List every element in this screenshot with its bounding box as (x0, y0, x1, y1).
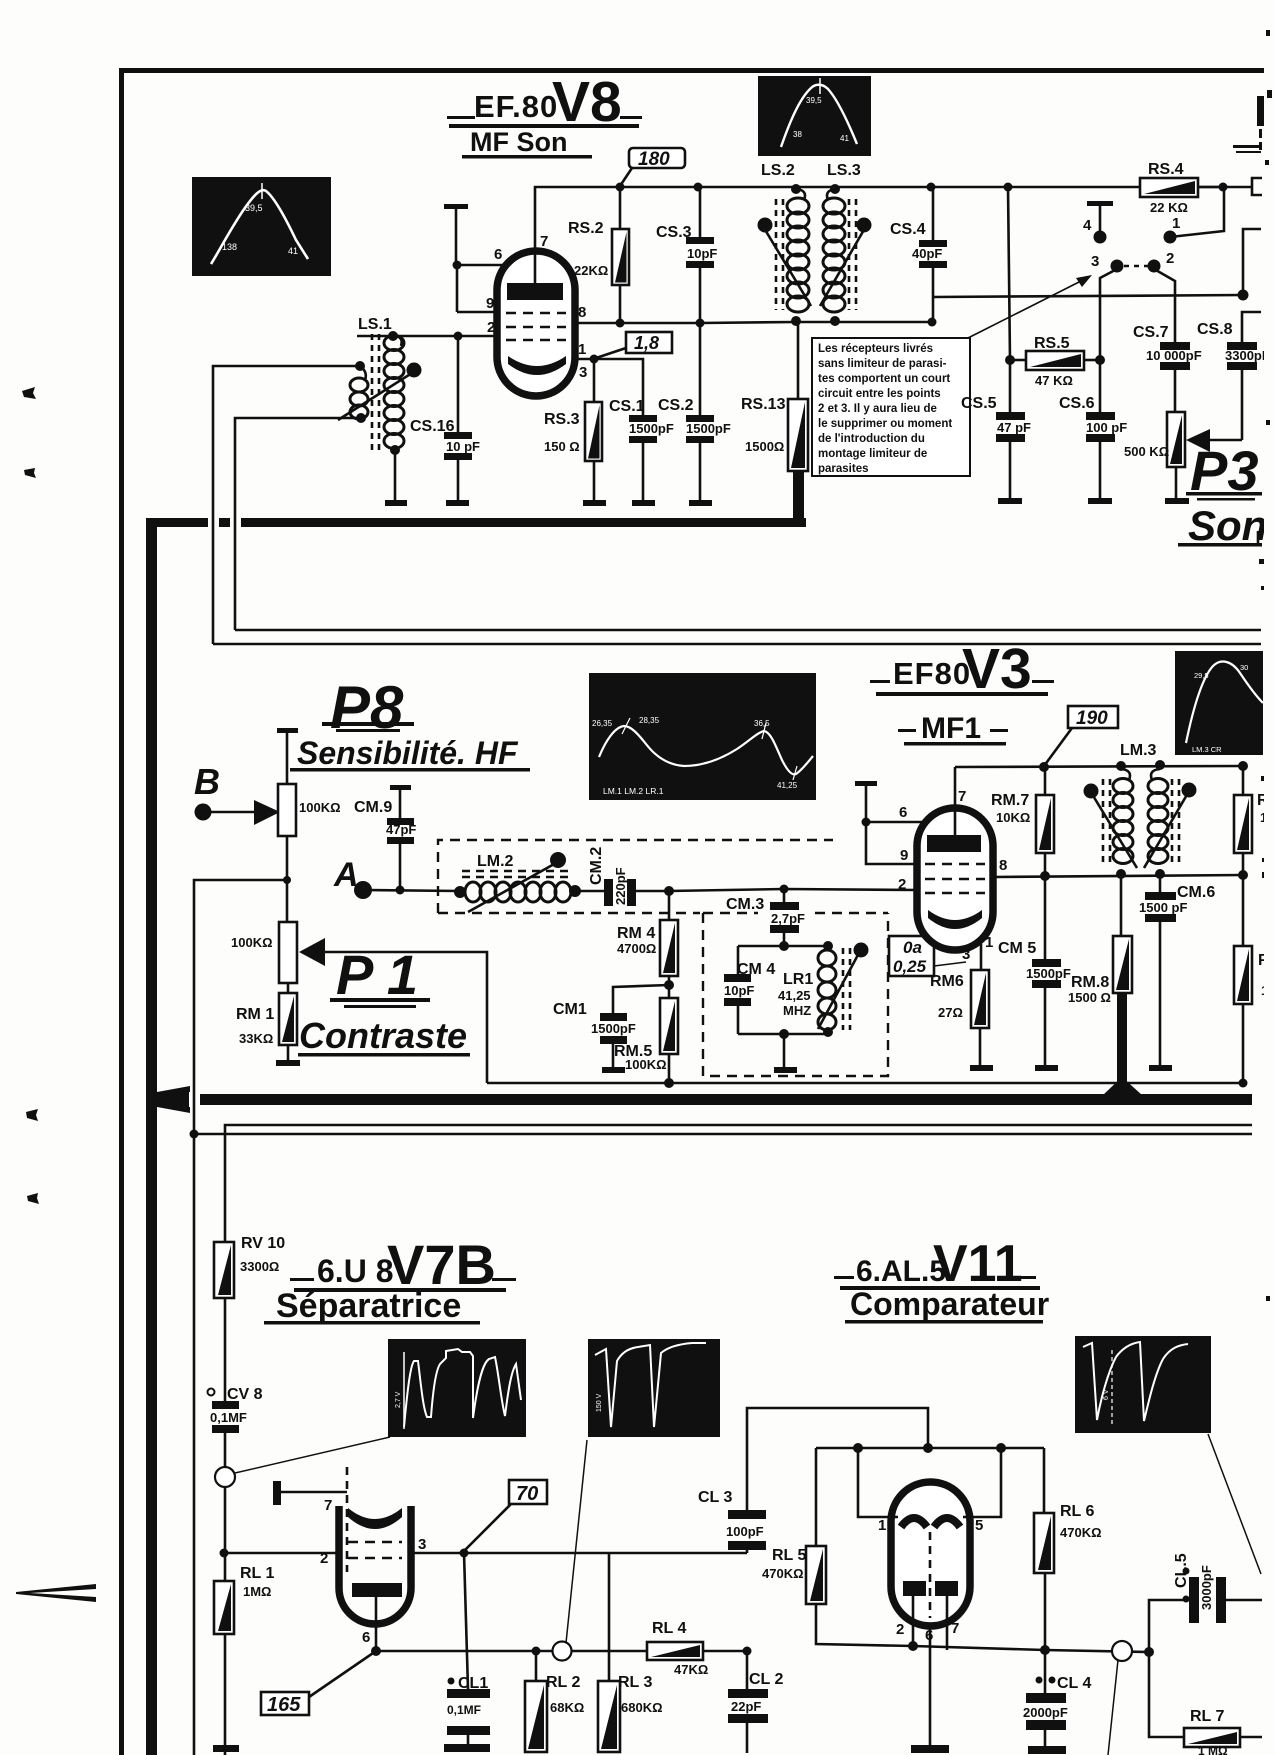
scope S4 (V3 out) (1175, 651, 1263, 755)
capacitor CL 4 (1023, 1650, 1091, 1746)
wire bus to V3 upper (235, 629, 1261, 632)
svg-text:470KΩ: 470KΩ (1060, 1525, 1102, 1540)
resistor RV 10 (214, 1235, 285, 1298)
svg-text:10 000pF: 10 000pF (1146, 348, 1202, 363)
svg-text:1500pF: 1500pF (591, 1021, 636, 1036)
right riser to edge (1243, 229, 1261, 295)
potentiometer P8 100K (277, 728, 341, 922)
resistor RL 2 (525, 1651, 584, 1752)
resistor RL 7 (1149, 1652, 1262, 1755)
title MF Son (462, 127, 592, 159)
svg-text:2000pF: 2000pF (1023, 1705, 1068, 1720)
junction pin6 (453, 261, 462, 270)
svg-text:41,25: 41,25 (778, 988, 811, 1003)
svg-text:CL 4: CL 4 (1057, 1675, 1091, 1692)
svg-text:CS.8: CS.8 (1197, 321, 1233, 338)
ground LR1 (774, 1067, 797, 1073)
ground CS.6 (1088, 498, 1112, 504)
junction pin3 (590, 355, 599, 364)
title EF80 V3 (870, 637, 1054, 701)
svg-text:6.U 8: 6.U 8 (317, 1253, 393, 1289)
B+ top wire (535, 187, 1223, 190)
svg-text:3: 3 (962, 946, 970, 963)
resistor RS.2 (568, 191, 629, 323)
margin mark 3 (26, 1109, 38, 1121)
capacitor CM.3 (726, 889, 805, 946)
svg-text:7: 7 (540, 233, 548, 250)
svg-text:100pF: 100pF (726, 1524, 764, 1539)
page margin right (1264, 0, 1275, 1755)
svg-text:27Ω: 27Ω (938, 1005, 963, 1020)
junction CS.3 top (694, 183, 703, 192)
junction RM5 bottom (664, 1078, 674, 1088)
junction long wire (190, 1130, 199, 1139)
page border left (119, 70, 124, 1755)
V7B pin 6 lead (362, 1597, 381, 1656)
ground CS.1 (632, 500, 655, 506)
V11 pin 7 lead (947, 1596, 959, 1650)
V8 pin 1/3 lead (574, 358, 594, 361)
svg-text:RL 1: RL 1 (240, 1565, 274, 1582)
svg-text:0,1MF: 0,1MF (447, 1703, 481, 1717)
capacitor CS.7 (1133, 324, 1202, 412)
junction contrast wire right (1239, 1079, 1248, 1088)
svg-text:de l'introduction du: de l'introduction du (818, 433, 925, 445)
test point circle separator (536, 1440, 647, 1661)
svg-text:RS.2: RS.2 (568, 220, 604, 237)
V11 pin 1 lead (858, 1448, 898, 1534)
svg-text:40pF: 40pF (912, 246, 942, 261)
svg-text:0,25: 0,25 (893, 957, 927, 976)
svg-text:10 pF: 10 pF (446, 439, 480, 454)
potentiometer P3 500K (1124, 412, 1242, 498)
title MF1 (898, 712, 1008, 746)
switch point 1 (1164, 187, 1225, 244)
junction P8 bottom (283, 876, 291, 884)
junction RL2 (532, 1647, 541, 1656)
V3 grids dashed (925, 864, 985, 893)
V8 pin 7 lead (534, 190, 537, 285)
svg-text:circuit entre les points: circuit entre les points (818, 388, 941, 400)
resistor RL 4 (647, 1620, 747, 1677)
capacitor CS.4 (890, 187, 947, 322)
svg-text:3: 3 (579, 364, 587, 381)
test point circle CV8 (215, 1467, 235, 1487)
junction RS.2 bottom (616, 319, 625, 328)
svg-text:6: 6 (925, 1627, 933, 1644)
capacitor CL 2 (728, 1651, 783, 1753)
junction pin2/CS16 (454, 332, 463, 341)
svg-text:CS.5: CS.5 (961, 395, 997, 412)
svg-text:CM 5: CM 5 (998, 940, 1036, 957)
svg-text:Sensibilité. HF: Sensibilité. HF (297, 735, 519, 771)
margin mark 1 (22, 387, 36, 399)
svg-text:V3: V3 (962, 637, 1032, 701)
capacitor CM 5 (998, 876, 1071, 1065)
title EF.80 V8 (447, 70, 642, 134)
svg-text:RM 1: RM 1 (236, 1006, 274, 1023)
transformer LS.2 (758, 162, 812, 326)
svg-text:100KΩ: 100KΩ (299, 800, 341, 815)
wire A-line to V3 grid (669, 889, 920, 891)
junction RS.5 top wire (1004, 183, 1013, 192)
page corner mark top-right (1233, 96, 1267, 153)
capacitor CS.16 (410, 336, 480, 500)
edge connector top (1252, 178, 1262, 195)
switch point 3 (1091, 253, 1124, 359)
svg-text:6: 6 (362, 1629, 370, 1646)
V8 grids dashed (506, 313, 566, 340)
scope S5 (video signal) (388, 1339, 526, 1437)
resistor RL 1 (214, 1565, 274, 1634)
svg-text:CS.1: CS.1 (609, 398, 645, 415)
svg-text:3: 3 (418, 1536, 426, 1553)
scope S6 (separator out) (588, 1339, 720, 1437)
title 6AL5 V11 (834, 1235, 1040, 1293)
junction CM.2/RM4 (664, 886, 674, 896)
svg-text:RL 5: RL 5 (772, 1547, 806, 1564)
V7B grid cap (273, 1467, 347, 1572)
svg-text:30: 30 (1240, 663, 1248, 672)
capacitor CM1 (553, 985, 669, 1067)
svg-text:RM 4: RM 4 (617, 925, 655, 942)
junction CM.3 bottom (779, 941, 789, 951)
ground CM1 (602, 1067, 625, 1073)
ground CS.16 (446, 500, 469, 506)
scope S7 (comparator) (1075, 1336, 1211, 1433)
scope S3 (video IF response) (589, 673, 816, 800)
svg-text:1500 pF: 1500 pF (1139, 900, 1187, 915)
transformer LM.3 (1084, 742, 1197, 879)
long wire y1134 (190, 1133, 1252, 1136)
junction rail right (996, 1443, 1006, 1453)
svg-text:47pF: 47pF (386, 822, 416, 837)
svg-text:10KΩ: 10KΩ (996, 810, 1030, 825)
resistor RS.3 (544, 359, 602, 500)
svg-text:22KΩ: 22KΩ (574, 263, 608, 278)
resistor RM.8 (1068, 874, 1142, 1095)
junction RS.5 left (1005, 355, 1015, 365)
svg-text:1: 1 (878, 1517, 886, 1534)
junction rail left (853, 1443, 863, 1453)
svg-text:CS.6: CS.6 (1059, 395, 1095, 412)
svg-text:220pF: 220pF (613, 867, 628, 905)
section line below band (225, 1125, 1252, 1755)
svg-text:2: 2 (1166, 250, 1174, 267)
capacitor CS.6 (1059, 360, 1127, 498)
ground LS.1 (385, 500, 407, 506)
V3 pin 7 lead (954, 767, 957, 837)
V11 anode rail (816, 1447, 1044, 1450)
svg-text:2 et 3. Il y aura lieu de: 2 et 3. Il y aura lieu de (818, 403, 937, 415)
svg-text:1500Ω: 1500Ω (745, 439, 784, 454)
shield box LR1 dashed (703, 913, 888, 1076)
capacitor CS.2 (658, 323, 731, 500)
svg-text:LS.1: LS.1 (358, 316, 392, 333)
resistor RS.5 (1008, 187, 1100, 388)
capacitor CM.6 (1139, 874, 1215, 1065)
svg-text:RL 4: RL 4 (652, 1620, 686, 1637)
svg-text:150 V: 150 V (596, 1393, 603, 1412)
V8 pin 8 lead (575, 322, 700, 325)
wire LS.1 primary top to left riser (213, 366, 360, 644)
svg-text:2: 2 (320, 1550, 328, 1567)
transformer LS.1 (338, 316, 422, 455)
V3 pin 6 lead (855, 781, 925, 827)
V11 pin 2 lead (896, 1596, 918, 1651)
tube V7B envelope (339, 1506, 411, 1624)
junction CS.3 bottom (696, 319, 705, 328)
V3 plate top wire (955, 766, 1243, 767)
wire LS.1 primary bottom to left riser (235, 418, 361, 630)
ground CS.5 (998, 498, 1022, 504)
svg-text:Les récepteurs livrés: Les récepteurs livrés (818, 343, 933, 355)
svg-text:39,5: 39,5 (806, 96, 822, 105)
V11 pin 6 lead (925, 1626, 933, 1745)
junction CL5/RL7 (1144, 1647, 1154, 1657)
junction RM7 top (1039, 762, 1049, 772)
tube V11 envelope (891, 1482, 970, 1626)
resistor RM.5 (614, 998, 678, 1083)
capacitor CM 4 (724, 946, 775, 1034)
capacitor CS.5 (961, 360, 1031, 498)
svg-text:2: 2 (896, 1621, 904, 1638)
svg-text:CM.2: CM.2 (588, 847, 605, 885)
svg-text:LM.3 CR: LM.3 CR (1192, 745, 1222, 754)
edge tick marks right (1259, 559, 1266, 878)
svg-text:7: 7 (324, 1497, 332, 1514)
ground RM6 (970, 1065, 993, 1071)
svg-text:RS.13: RS.13 (741, 396, 786, 413)
coil LM.2 (454, 852, 581, 912)
V3 pin 9 lead (866, 822, 920, 864)
resistor RM 4 (617, 891, 678, 998)
svg-text:MF Son: MF Son (470, 127, 567, 157)
ground CM6 (1149, 1065, 1172, 1071)
svg-text:3300pF: 3300pF (1225, 348, 1270, 363)
capacitor CL1 (447, 1553, 490, 1744)
capacitor CM.9 (354, 785, 416, 890)
svg-text:6: 6 (494, 246, 502, 263)
V11 anode 2 (934, 1518, 960, 1527)
junction RM4/RM5 (664, 980, 674, 990)
svg-text:1: 1 (578, 341, 586, 358)
junction CS.4 bottom wire (928, 318, 937, 327)
ground RM1 (276, 1060, 300, 1066)
resistor RM 1 (236, 993, 297, 1060)
junction CM.3 top (780, 885, 789, 894)
svg-text:100KΩ: 100KΩ (231, 935, 273, 950)
svg-text:RM6: RM6 (930, 973, 964, 990)
svg-text:470KΩ: 470KΩ (762, 1566, 804, 1581)
svg-text:33KΩ: 33KΩ (239, 1031, 273, 1046)
V3 pin 8 lead (993, 875, 1243, 877)
capacitor CS.8 (1197, 312, 1270, 440)
page border top (119, 68, 1265, 73)
svg-text:47KΩ: 47KΩ (674, 1662, 708, 1677)
V7B cathode (352, 1583, 402, 1597)
svg-text:1: 1 (985, 934, 993, 951)
ground RL1 (213, 1745, 239, 1752)
svg-text:RL 6: RL 6 (1060, 1503, 1094, 1520)
ground CM5 (1035, 1065, 1058, 1071)
svg-text:22pF: 22pF (731, 1699, 761, 1714)
resistor RS.4 (1140, 161, 1252, 215)
title P 1 (330, 943, 430, 1008)
svg-text:1,8: 1,8 (634, 333, 659, 353)
svg-text:2: 2 (898, 876, 906, 893)
cathode wire V7B (376, 1650, 536, 1653)
svg-text:100KΩ: 100KΩ (625, 1057, 667, 1072)
V7B anode (348, 1508, 402, 1529)
arrow note to point 3 (968, 275, 1092, 338)
svg-text:EF80: EF80 (893, 656, 971, 691)
margin wedge bottom-left (16, 1584, 96, 1602)
svg-text:10pF: 10pF (724, 983, 754, 998)
junction CS.4 top (927, 183, 936, 192)
title Sensibilite HF (290, 735, 530, 772)
note box (limiter) (812, 338, 970, 476)
V11 anode 1 (901, 1518, 927, 1527)
V11 cathode 2 (935, 1581, 958, 1596)
capacitor CV 8 (208, 1386, 263, 1433)
B+ bus thick vertical (146, 518, 157, 1755)
svg-text:1500pF: 1500pF (686, 421, 731, 436)
svg-text:MHZ: MHZ (783, 1003, 811, 1018)
node A (333, 856, 460, 899)
svg-text:68KΩ: 68KΩ (550, 1700, 584, 1715)
ground CL1 (444, 1744, 490, 1752)
callout 70 (464, 1480, 547, 1551)
callout 180 (620, 148, 685, 186)
svg-text:9: 9 (486, 295, 494, 312)
svg-text:LS.2: LS.2 (761, 162, 795, 179)
tube V8 envelope (497, 251, 575, 396)
junction RS.4 out (1219, 183, 1228, 192)
svg-text:1500 Ω: 1500 Ω (1068, 990, 1111, 1005)
tube V3 envelope (917, 808, 993, 950)
coil LR1 (778, 941, 869, 1037)
svg-text:500 KΩ: 500 KΩ (1124, 444, 1169, 459)
margin mark 2 (24, 468, 36, 478)
tank bottom wire (738, 1033, 828, 1036)
svg-text:RV 10: RV 10 (241, 1235, 285, 1252)
svg-text:150 Ω: 150 Ω (544, 439, 580, 454)
resistor RS.13 (741, 322, 808, 520)
junction RS.2 top (616, 183, 625, 192)
svg-text:RS.3: RS.3 (544, 411, 580, 428)
svg-text:sans limiteur de parasi-: sans limiteur de parasi- (818, 358, 947, 370)
svg-text:36,5: 36,5 (754, 719, 770, 728)
junction RL4/CL2 (743, 1647, 752, 1656)
capacitor CL 3 (698, 1489, 766, 1550)
svg-text:LM.3: LM.3 (1120, 742, 1157, 759)
svg-text:CM.9: CM.9 (354, 799, 392, 816)
svg-text:1500pF: 1500pF (629, 421, 674, 436)
margin specks right (1266, 30, 1270, 36)
svg-text:5: 5 (975, 1517, 983, 1534)
V8 pin 2 lead (357, 335, 500, 338)
V8 pin 9 lead (457, 311, 500, 314)
V7B pin 3 lead (411, 1536, 747, 1553)
svg-text:CS.4: CS.4 (890, 221, 926, 238)
V11 cathode 1 (903, 1581, 926, 1596)
junction right riser (1238, 290, 1249, 301)
junction CL4 (1040, 1645, 1050, 1655)
svg-text:39,5: 39,5 (245, 203, 263, 213)
shield box LM.2 dashed (438, 840, 833, 913)
svg-text:28,35: 28,35 (639, 716, 660, 725)
svg-text:6: 6 (899, 804, 907, 821)
ground V11 pin6 (911, 1745, 949, 1753)
callout 165 (261, 1651, 376, 1716)
svg-text:parasites: parasites (818, 463, 869, 475)
svg-text:41: 41 (288, 246, 298, 256)
svg-text:680KΩ: 680KΩ (621, 1700, 663, 1715)
svg-text:LR1: LR1 (783, 971, 813, 988)
svg-text:montage limiteur de: montage limiteur de (818, 448, 927, 460)
svg-text:CS.7: CS.7 (1133, 324, 1169, 341)
svg-text:LS.3: LS.3 (827, 162, 861, 179)
svg-text:100 pF: 100 pF (1086, 420, 1127, 435)
capacitor CM.2 (575, 847, 669, 906)
svg-text:165: 165 (267, 1694, 301, 1716)
capacitor CS.3 (656, 187, 717, 323)
svg-text:RS.4: RS.4 (1148, 161, 1184, 178)
V3 pin 1/3 lead (962, 934, 993, 970)
pointer comparator test point (1108, 1660, 1118, 1755)
pointer to scope S5 (235, 1437, 390, 1473)
junction RM9 mid (1238, 870, 1248, 880)
callout 0a 0,25 (889, 936, 966, 976)
capacitor CS.1 (594, 359, 674, 500)
svg-text:CS.2: CS.2 (658, 397, 694, 414)
node B (194, 761, 280, 825)
svg-text:1500pF: 1500pF (1026, 966, 1071, 981)
resistor RM.7 (991, 767, 1054, 876)
svg-text:180: 180 (638, 149, 670, 170)
svg-text:Comparateur: Comparateur (850, 1286, 1049, 1322)
title Comparateur (845, 1286, 1049, 1324)
svg-text:9: 9 (900, 847, 908, 864)
svg-text:MF1: MF1 (921, 712, 981, 745)
capacitor CL.5 (1149, 1553, 1262, 1652)
V3 cathode (928, 910, 982, 929)
svg-text:CL 3: CL 3 (698, 1489, 732, 1506)
ground RS.3 (583, 500, 606, 506)
margin mark 4 (27, 1193, 39, 1204)
chassis band left flare (157, 1086, 190, 1113)
ground CL4 (1028, 1746, 1066, 1754)
svg-text:3300Ω: 3300Ω (240, 1259, 279, 1274)
svg-text:RM.8: RM.8 (1071, 974, 1109, 991)
svg-text:8: 8 (999, 857, 1007, 874)
ground CS.2 (689, 500, 712, 506)
junction RM9 top (1238, 761, 1248, 771)
V8 cathode (508, 356, 566, 375)
svg-text:7: 7 (958, 788, 966, 805)
svg-text:RS.5: RS.5 (1034, 335, 1070, 352)
svg-text:RL 2: RL 2 (546, 1674, 580, 1691)
svg-text:B: B (194, 761, 220, 802)
svg-text:4: 4 (1083, 217, 1092, 234)
svg-text:CM.3: CM.3 (726, 896, 764, 913)
junction CM.9 (396, 886, 405, 895)
wire bus to V3 lower (213, 643, 1261, 646)
svg-text:7: 7 (951, 1620, 959, 1637)
svg-text:le supprimer ou moment: le supprimer ou moment (818, 418, 952, 430)
svg-text:138: 138 (222, 242, 237, 252)
